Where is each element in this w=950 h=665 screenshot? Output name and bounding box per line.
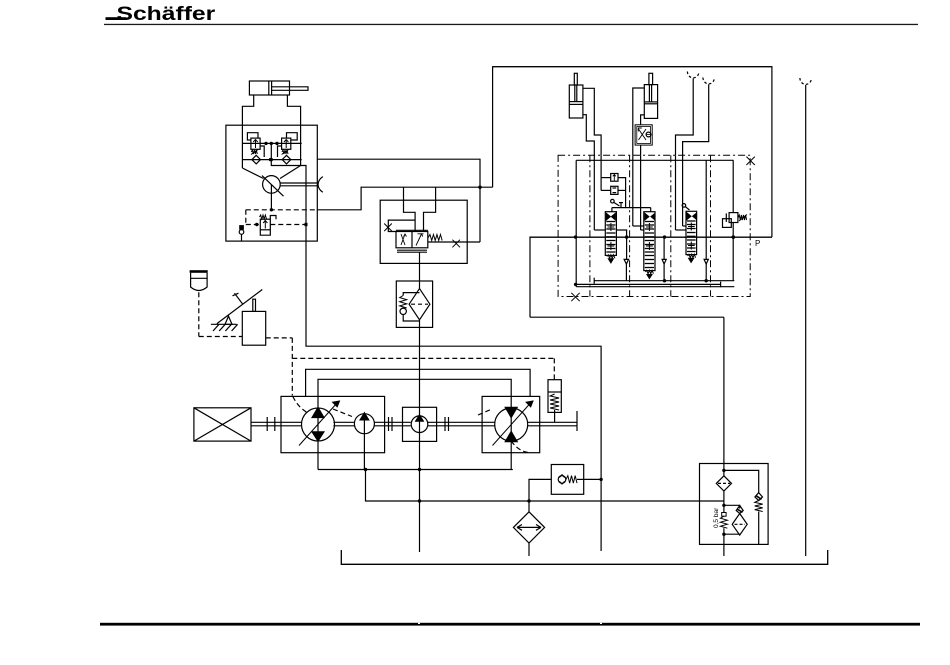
relief RV3 bbox=[755, 493, 763, 501]
wire work A3 bbox=[675, 155, 677, 230]
wire C2 A bbox=[583, 88, 601, 155]
block inner bottom bbox=[576, 286, 734, 288]
cooler CL1 bbox=[716, 476, 731, 491]
spool bridge 1 bbox=[612, 207, 651, 209]
wire Q2 bbox=[683, 84, 709, 155]
check valve OW1 bbox=[558, 476, 566, 484]
pump box PB1 bbox=[281, 396, 385, 452]
pump P1 control link bbox=[293, 396, 307, 412]
wire Q1 bbox=[676, 78, 694, 155]
cooler box bbox=[700, 464, 769, 545]
block inner top bbox=[576, 159, 733, 161]
wire work B1 bbox=[600, 155, 602, 190]
brake pilot drop bbox=[553, 358, 555, 379]
block P gallery bbox=[530, 236, 772, 238]
wire charge line bbox=[317, 187, 492, 210]
wire work A1 bbox=[593, 155, 595, 230]
wire work A2 bbox=[632, 155, 634, 226]
suction strainer ST1 bbox=[513, 512, 544, 543]
flush valve FV1 spring bbox=[260, 215, 267, 219]
pedal lever bbox=[217, 290, 262, 324]
return filter F2 bbox=[724, 505, 740, 508]
check valve D1 bbox=[252, 155, 261, 164]
wire into block left bbox=[404, 187, 416, 231]
pump box PB3 bbox=[403, 407, 437, 441]
drain line s3 bbox=[705, 160, 707, 259]
relief valve RV1 pilot loop bbox=[247, 133, 258, 140]
closed port X right bbox=[452, 240, 460, 248]
wire drain right bbox=[600, 478, 602, 551]
output shaft end bbox=[576, 411, 578, 431]
coupling Q1 bbox=[687, 72, 699, 78]
section divider 2 bbox=[629, 155, 631, 296]
wire C2 B bbox=[583, 115, 594, 156]
svg-text:0,5 bar: 0,5 bar bbox=[713, 507, 720, 528]
output shaft bbox=[527, 421, 577, 423]
wire SP1 drain bbox=[626, 237, 628, 259]
section divider 4 bbox=[710, 155, 712, 296]
header rule bbox=[104, 24, 918, 25]
pump P1 variable bbox=[302, 408, 335, 441]
pilot to pump bbox=[199, 336, 243, 338]
shuttle box SH1 bbox=[611, 186, 618, 194]
wire T collector bbox=[366, 470, 724, 502]
wire P2 drop bbox=[363, 434, 365, 470]
cylinder C3 piston bbox=[644, 101, 657, 103]
pilot line dashed bbox=[246, 209, 317, 211]
wire link reliefs bbox=[270, 143, 272, 159]
wire U1 riser right bbox=[300, 125, 302, 165]
wire M2 drop bbox=[510, 442, 512, 470]
wire motor funnel right bbox=[280, 166, 301, 179]
breather line bbox=[198, 292, 200, 336]
coupling Q2 bbox=[703, 78, 715, 84]
spool SP1 arrow bbox=[607, 255, 615, 258]
wire motor funnel left bbox=[242, 168, 263, 179]
pilot to valve bbox=[246, 224, 260, 226]
shaft clamp bbox=[318, 177, 323, 193]
HST loop line A bbox=[306, 369, 530, 396]
wire return drop bbox=[723, 317, 725, 463]
bypass check 0.5bar bbox=[722, 513, 726, 517]
breather B1 bbox=[190, 270, 208, 273]
pump P1 arrow bbox=[299, 403, 337, 446]
closed port X left bbox=[384, 224, 392, 232]
throttle check TC1 bbox=[638, 128, 646, 140]
block X top right bbox=[746, 157, 754, 165]
check valve D2 bbox=[282, 155, 291, 164]
section divider 3 bbox=[670, 155, 672, 296]
spool SP2 arrow bbox=[645, 270, 653, 273]
block T gallery 2 bbox=[594, 280, 734, 282]
coupling K3 bbox=[444, 417, 446, 431]
filter F1 element bbox=[409, 289, 430, 320]
pump P2 charge bbox=[354, 414, 374, 434]
motor M2 variable bbox=[495, 408, 528, 441]
engine E1 box bbox=[194, 408, 251, 441]
wire loop top riser bbox=[493, 67, 772, 237]
valve V1 overline bbox=[396, 229, 428, 231]
shaft S1 bbox=[280, 182, 318, 184]
wire C1 port right bbox=[287, 95, 300, 125]
block T gallery bbox=[576, 283, 721, 285]
wire C1 port left bbox=[242, 95, 253, 125]
main relief MR1 bbox=[732, 160, 734, 212]
throttle check TC1 box bbox=[635, 125, 652, 145]
shaft engine-pump bbox=[251, 421, 302, 423]
wire C3 B bbox=[641, 115, 645, 125]
motor M2 arrow bbox=[493, 403, 531, 446]
wire pump suction bus bbox=[317, 441, 319, 469]
spool valve SP2 bbox=[644, 212, 655, 271]
motor box MB2 bbox=[482, 396, 540, 452]
wire T return bbox=[530, 316, 724, 318]
coupling K2 bbox=[388, 417, 390, 431]
wire block top loop bbox=[493, 66, 772, 68]
node charge bbox=[270, 208, 273, 211]
wire valve out bbox=[428, 241, 480, 243]
main relief MR1 drain bbox=[732, 223, 734, 281]
block inner left bbox=[575, 160, 577, 286]
relief valve RV2 pilot loop bbox=[287, 133, 298, 140]
wire OW left bbox=[529, 479, 551, 511]
relief valve RV2 spring bbox=[282, 150, 288, 154]
main relief MR1 spring bbox=[738, 215, 746, 220]
valve block frame bbox=[558, 155, 750, 296]
flush block box bbox=[380, 200, 467, 263]
master cylinder MC1 bbox=[242, 311, 265, 345]
filter F1 box bbox=[396, 281, 432, 327]
cylinder C1 piston bbox=[268, 81, 270, 95]
Schaeffer logo bbox=[106, 17, 127, 20]
wire U1 riser left bbox=[241, 125, 243, 168]
cylinder C2 rod bbox=[574, 73, 577, 85]
flush valve FV1 drain bbox=[260, 230, 270, 235]
cylinder C1 rod bbox=[272, 87, 308, 91]
wire gauge drain bbox=[241, 234, 243, 241]
wire valve drain bbox=[419, 252, 421, 281]
cylinder C2 barrel bbox=[569, 85, 583, 118]
pump P3 steering bbox=[411, 416, 428, 433]
cylinder C3 rod bbox=[649, 73, 653, 84]
wire work B2 bbox=[640, 155, 642, 230]
spool SP3 arrow bbox=[688, 254, 696, 257]
coupling K1 bbox=[266, 417, 268, 431]
valve V1 2/2 bbox=[396, 232, 428, 248]
flush valve FV1 pilot bbox=[270, 216, 276, 220]
coupling T port bbox=[800, 78, 812, 84]
valve V1 spring bbox=[428, 235, 442, 241]
wire work B3 bbox=[682, 155, 684, 226]
wire cooler out bbox=[723, 491, 725, 513]
relief valve RV1 bbox=[251, 138, 260, 149]
HST loop line B bbox=[318, 379, 511, 407]
wire main drain bbox=[419, 327, 421, 415]
pilot drop bbox=[245, 210, 247, 225]
wire A-line bbox=[317, 159, 480, 242]
pilot master out bbox=[266, 337, 293, 339]
pedal plate bbox=[235, 293, 243, 304]
pilot from valve bbox=[270, 224, 306, 226]
wire strainer drop bbox=[528, 543, 530, 556]
drain triangle 1 bbox=[624, 259, 629, 264]
brake cylinder BC1 bbox=[548, 380, 561, 413]
svg-text:P: P bbox=[755, 239, 760, 248]
brake pilot line bbox=[291, 338, 293, 396]
wire tank drop bbox=[723, 544, 725, 556]
motor M2 control link bbox=[511, 441, 530, 453]
spool valve SP1 bbox=[605, 212, 616, 256]
wire C3 A bbox=[633, 88, 645, 155]
drain triangle 3 bbox=[704, 259, 708, 264]
wire OW right bbox=[584, 478, 601, 480]
cylinder C1 barrel bbox=[249, 81, 289, 95]
ground bbox=[211, 323, 237, 325]
motor M1 orbital bbox=[263, 176, 281, 194]
relief valve RV1 spring bbox=[251, 150, 257, 154]
wire P supply bbox=[530, 237, 772, 317]
check line bbox=[242, 159, 301, 161]
valve V1 underline bbox=[397, 249, 427, 251]
valve V1 pilot box bbox=[388, 220, 415, 231]
wire TC1 down bbox=[640, 145, 642, 155]
cylinder C2 piston bbox=[569, 101, 583, 103]
brake pilot line h bbox=[292, 357, 554, 359]
steering unit box U1 bbox=[226, 125, 317, 241]
gauge port G1 bbox=[239, 225, 244, 230]
svg-text:Schäffer: Schäffer bbox=[117, 3, 216, 25]
relief valve RV2 drain bbox=[278, 146, 282, 157]
wire in cooler bbox=[723, 464, 725, 476]
shaft P3-M2 bbox=[428, 421, 496, 423]
tank bbox=[341, 550, 827, 564]
filter F1 line bbox=[419, 281, 421, 289]
shaft P1-P2 bbox=[333, 421, 354, 423]
wire into block right bbox=[424, 187, 436, 231]
filter F1 bypass bbox=[403, 293, 419, 296]
wire SP1 to P bbox=[616, 230, 626, 237]
pilot lever 3 bbox=[682, 204, 686, 208]
relief valve RV2 bbox=[282, 138, 291, 149]
footer rule bbox=[100, 623, 920, 626]
shaft P2-P3 bbox=[374, 421, 410, 423]
wire T port line bbox=[805, 85, 807, 556]
cylinder C3 barrel bbox=[644, 85, 657, 119]
relief line bbox=[242, 142, 301, 144]
drain triangle 2 bbox=[662, 259, 666, 264]
relief valve RV1 drain bbox=[260, 146, 264, 157]
wire to B-line bbox=[271, 160, 306, 242]
spool valve SP3 bbox=[686, 211, 697, 254]
pedal pivot bbox=[225, 316, 232, 324]
section relief SR1 bbox=[611, 174, 618, 182]
section divider 1 bbox=[589, 155, 591, 296]
relief branch bbox=[724, 470, 759, 493]
pilot lever 1 bbox=[611, 199, 615, 203]
check valve OW1 box bbox=[551, 465, 583, 495]
flush valve FV1 bbox=[260, 219, 270, 230]
block X bottom left bbox=[571, 293, 579, 301]
wire B-line bbox=[306, 241, 601, 478]
